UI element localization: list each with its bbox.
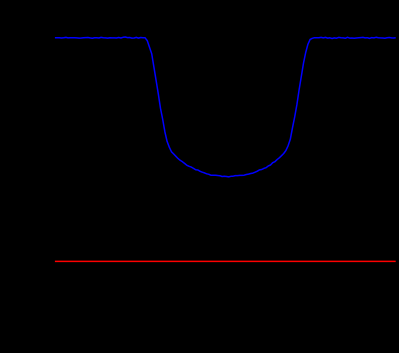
- baseline (red): [55, 260, 396, 262]
- transit light-curve (blue): [55, 37, 396, 177]
